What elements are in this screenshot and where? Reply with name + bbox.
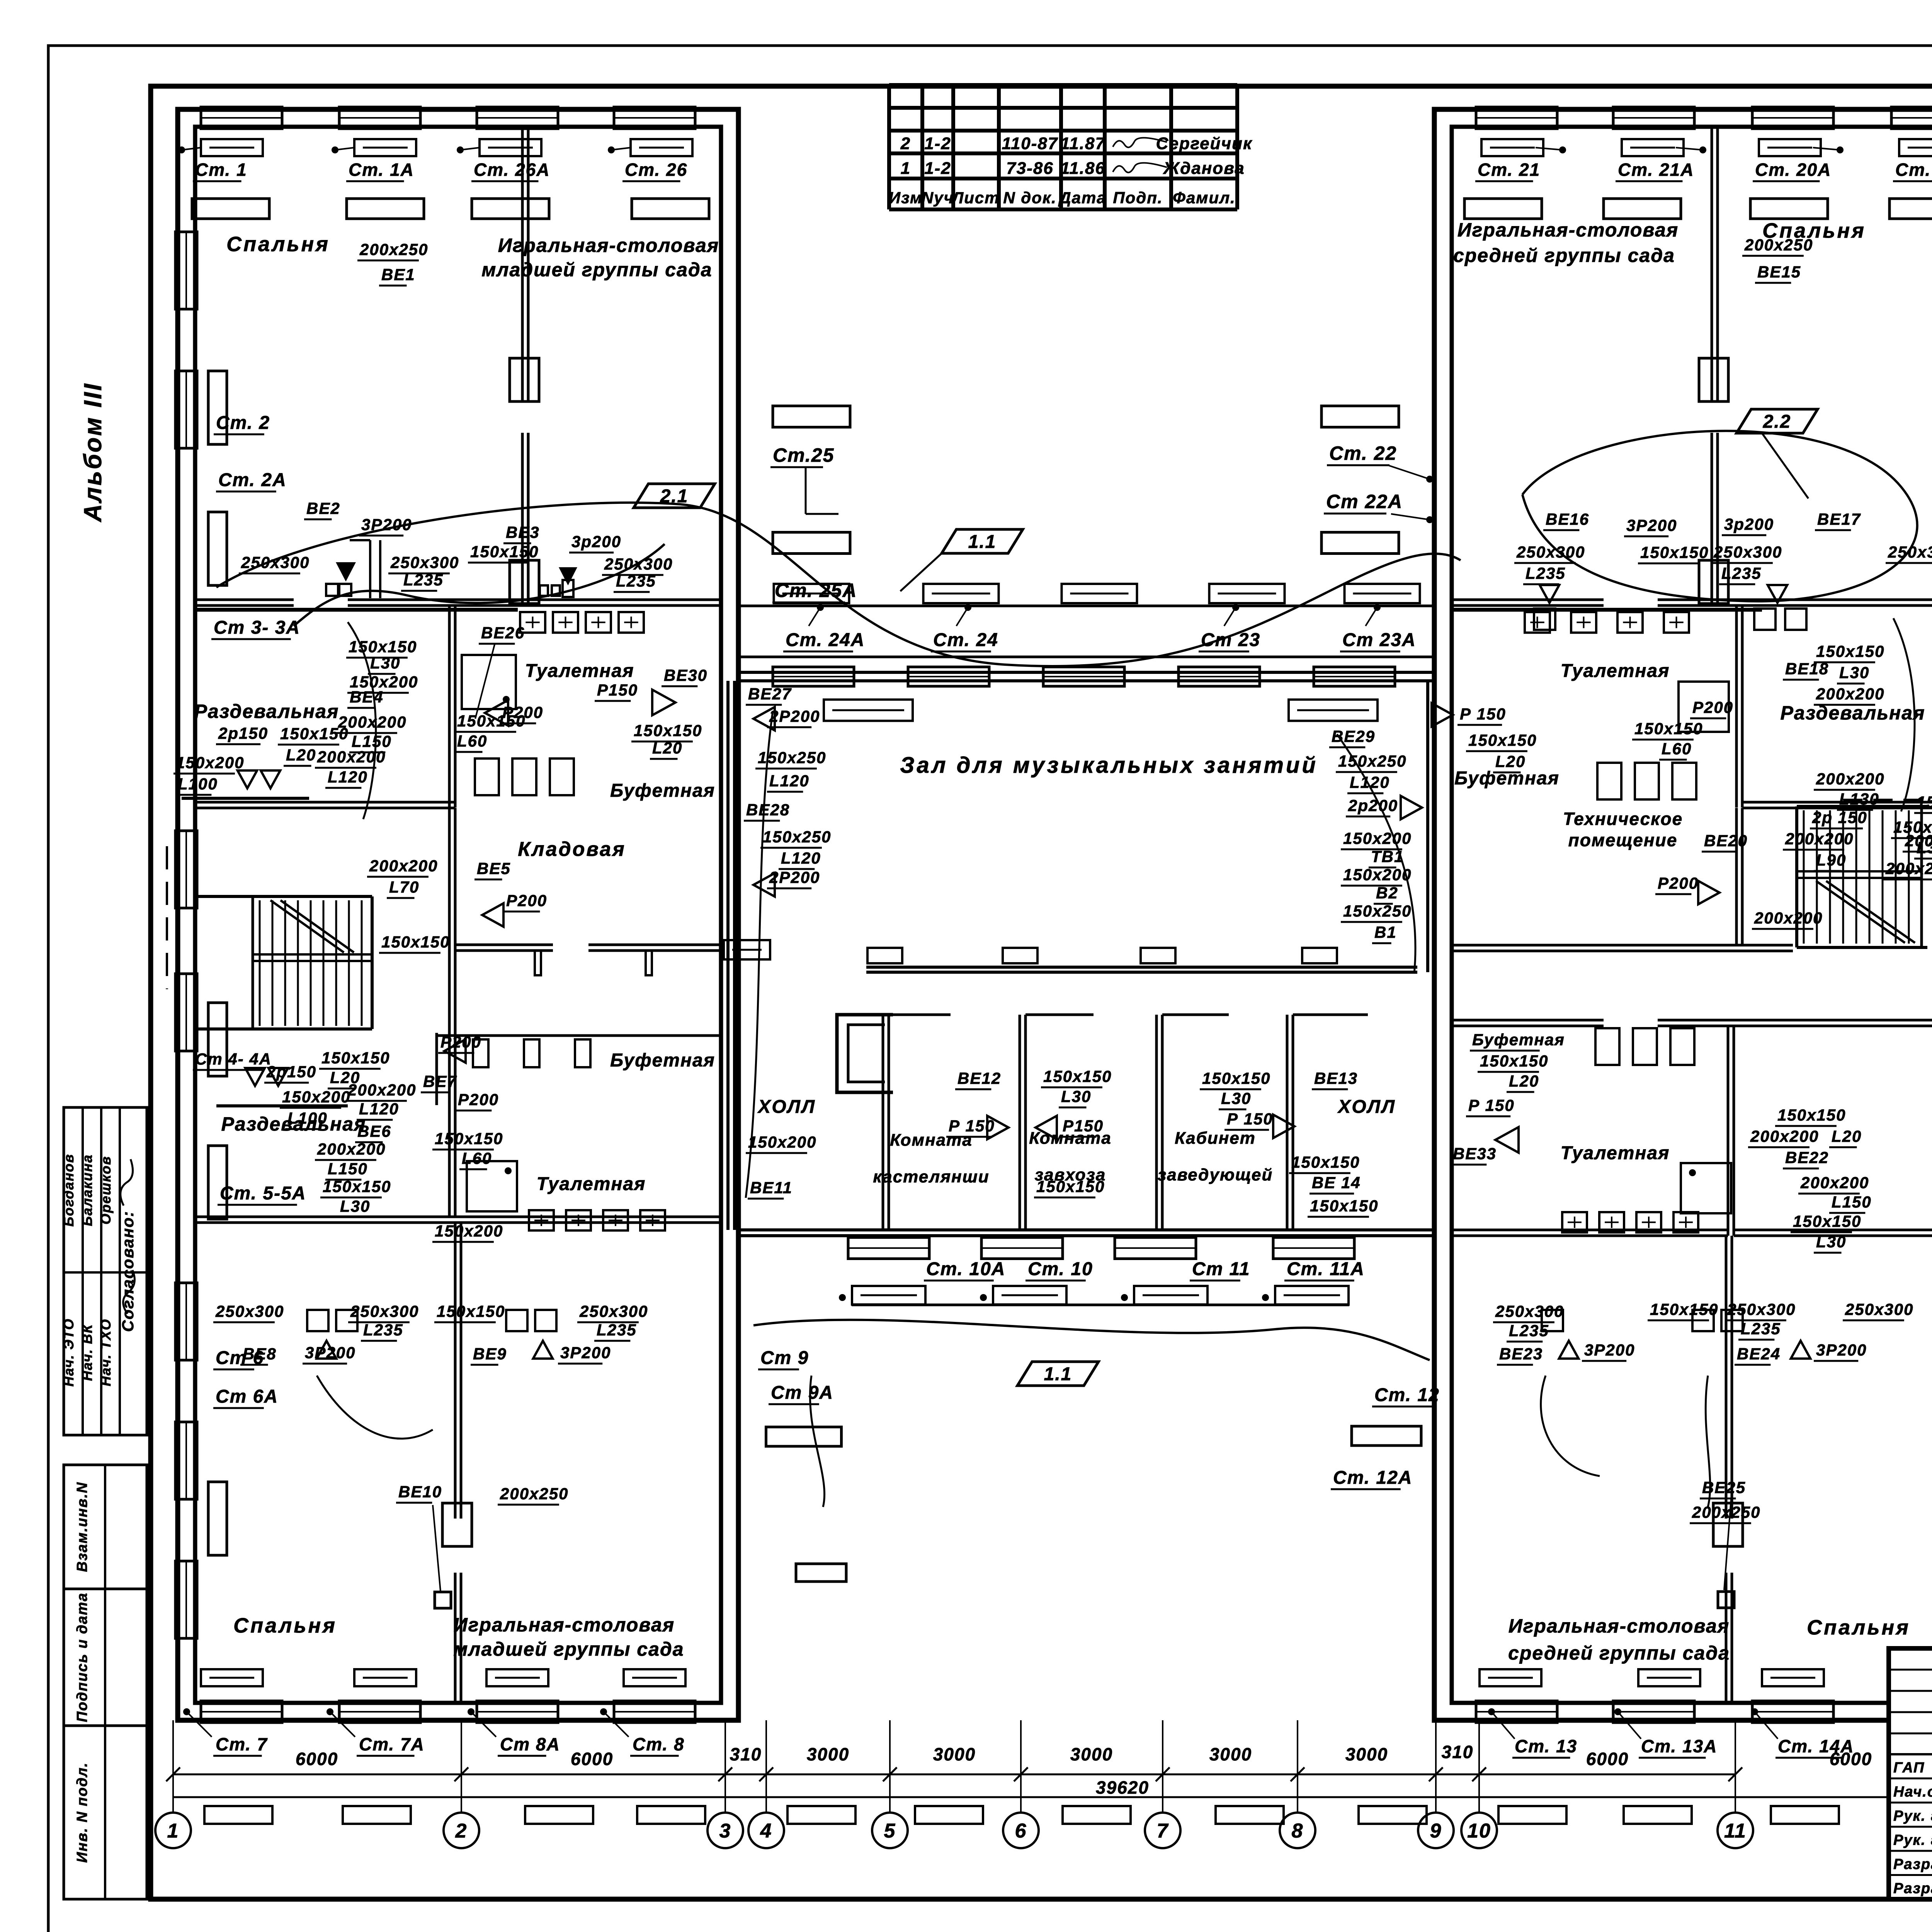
svg-text:Рук. гр.: Рук. гр. bbox=[1893, 1832, 1932, 1849]
svg-text:Ст. 13А: Ст. 13А bbox=[1641, 1736, 1717, 1756]
svg-text:Ст 22А: Ст 22А bbox=[1326, 491, 1403, 512]
svg-text:Взам.инв.N: Взам.инв.N bbox=[74, 1482, 90, 1572]
svg-text:Спальня: Спальня bbox=[226, 233, 330, 256]
svg-text:L120: L120 bbox=[769, 772, 810, 790]
svg-text:150х150: 150х150 bbox=[381, 933, 450, 951]
svg-text:73-86: 73-86 bbox=[1006, 159, 1054, 178]
svg-text:Туалетная: Туалетная bbox=[537, 1174, 646, 1194]
svg-text:Разраб.: Разраб. bbox=[1893, 1856, 1932, 1872]
svg-text:ВЕ24: ВЕ24 bbox=[1737, 1345, 1781, 1363]
svg-text:L60: L60 bbox=[457, 732, 487, 750]
svg-text:150х150: 150х150 bbox=[349, 638, 417, 656]
svg-text:ВЕ9: ВЕ9 bbox=[473, 1345, 507, 1363]
svg-text:150х150: 150х150 bbox=[1202, 1069, 1271, 1087]
svg-text:3000: 3000 bbox=[1070, 1744, 1113, 1764]
svg-text:7: 7 bbox=[1157, 1820, 1169, 1842]
svg-text:11: 11 bbox=[1724, 1820, 1747, 1842]
svg-text:Ст 9: Ст 9 bbox=[760, 1348, 809, 1368]
svg-text:ВЕ27: ВЕ27 bbox=[748, 685, 792, 703]
svg-text:L150: L150 bbox=[328, 1160, 368, 1178]
svg-text:L130: L130 bbox=[1839, 790, 1879, 808]
svg-text:310: 310 bbox=[730, 1744, 762, 1764]
svg-text:Ст. 24А: Ст. 24А bbox=[786, 630, 865, 650]
svg-text:L235: L235 bbox=[403, 571, 444, 589]
svg-text:N док.: N док. bbox=[1003, 189, 1057, 207]
svg-text:Буфетная: Буфетная bbox=[1472, 1031, 1565, 1049]
svg-text:Ст 8А: Ст 8А bbox=[500, 1734, 560, 1754]
svg-text:Буфетная: Буфетная bbox=[610, 1050, 715, 1071]
svg-text:средней группы сада: средней группы сада bbox=[1453, 245, 1675, 266]
svg-text:Зал для музыкальных занятий: Зал для музыкальных занятий bbox=[900, 753, 1318, 778]
svg-text:200х200: 200х200 bbox=[1905, 832, 1932, 850]
svg-text:Богданов: Богданов bbox=[61, 1153, 77, 1226]
svg-text:150х150: 150х150 bbox=[634, 721, 702, 740]
svg-text:ВЕ11: ВЕ11 bbox=[750, 1179, 793, 1197]
svg-text:L120: L120 bbox=[781, 849, 821, 867]
svg-text:1-2: 1-2 bbox=[924, 159, 951, 178]
svg-text:Нач.отд.: Нач.отд. bbox=[1893, 1784, 1932, 1800]
svg-text:Р 150: Р 150 bbox=[1460, 705, 1506, 723]
svg-text:3р200: 3р200 bbox=[1724, 515, 1774, 533]
svg-text:заведующей: заведующей bbox=[1158, 1165, 1273, 1184]
svg-text:11.86: 11.86 bbox=[1060, 159, 1105, 178]
svg-text:L20: L20 bbox=[286, 746, 316, 764]
svg-text:Туалетная: Туалетная bbox=[1561, 1143, 1670, 1163]
svg-text:250х300: 250х300 bbox=[1888, 543, 1932, 561]
svg-text:L150: L150 bbox=[1832, 1193, 1872, 1211]
svg-text:Ст 23: Ст 23 bbox=[1201, 630, 1260, 650]
svg-text:Фамил.: Фамил. bbox=[1173, 189, 1236, 207]
svg-text:39620: 39620 bbox=[1096, 1777, 1149, 1798]
svg-text:L90: L90 bbox=[1816, 851, 1846, 869]
svg-text:Раздевальная: Раздевальная bbox=[221, 1113, 366, 1135]
svg-text:150х200: 150х200 bbox=[748, 1133, 817, 1151]
svg-text:Ст 3- 3А: Ст 3- 3А bbox=[214, 617, 300, 638]
svg-text:Туалетная: Туалетная bbox=[1561, 661, 1670, 681]
svg-text:150х150: 150х150 bbox=[1793, 1212, 1862, 1230]
svg-text:Нач. ВК: Нач. ВК bbox=[79, 1323, 95, 1381]
svg-text:L100: L100 bbox=[178, 775, 218, 793]
svg-text:Согласовано:: Согласовано: bbox=[119, 1211, 137, 1332]
svg-text:3Р200: 3Р200 bbox=[1584, 1341, 1635, 1359]
svg-text:Р 150: Р 150 bbox=[1227, 1110, 1273, 1128]
svg-text:2: 2 bbox=[900, 134, 911, 153]
svg-text:Ст. 26: Ст. 26 bbox=[625, 160, 687, 180]
svg-text:Жданова: Жданова bbox=[1163, 159, 1245, 178]
svg-text:Раздевальная: Раздевальная bbox=[1781, 702, 1925, 724]
svg-text:Подп.: Подп. bbox=[1113, 189, 1163, 207]
svg-text:250х300: 250х300 bbox=[1516, 543, 1585, 561]
svg-text:L70: L70 bbox=[389, 878, 419, 896]
svg-text:250х300: 250х300 bbox=[390, 553, 459, 571]
svg-text:110-87: 110-87 bbox=[1002, 134, 1058, 153]
svg-text:L30: L30 bbox=[1061, 1087, 1091, 1105]
svg-text:200х250: 200х250 bbox=[1744, 236, 1813, 254]
svg-text:Р150: Р150 bbox=[1063, 1117, 1104, 1135]
svg-text:150х150: 150х150 bbox=[435, 1129, 503, 1148]
svg-text:Ст.25: Ст.25 bbox=[773, 444, 834, 466]
svg-text:ХОЛЛ: ХОЛЛ bbox=[1337, 1097, 1396, 1117]
svg-text:Изм: Изм bbox=[889, 189, 923, 207]
svg-text:6000: 6000 bbox=[571, 1749, 613, 1769]
svg-text:кастелянши: кастелянши bbox=[873, 1167, 989, 1186]
svg-text:Ст. 10: Ст. 10 bbox=[1028, 1259, 1093, 1279]
svg-text:ВЕ33: ВЕ33 bbox=[1453, 1145, 1497, 1163]
svg-text:3р200: 3р200 bbox=[571, 532, 621, 551]
svg-text:L20: L20 bbox=[1509, 1072, 1539, 1090]
svg-text:3: 3 bbox=[719, 1820, 731, 1842]
svg-text:L120: L120 bbox=[1350, 773, 1390, 791]
svg-text:150х200: 150х200 bbox=[1343, 829, 1412, 847]
svg-text:Ст. 11А: Ст. 11А bbox=[1287, 1259, 1365, 1279]
svg-text:200х200: 200х200 bbox=[369, 857, 438, 875]
svg-text:Ст. 22: Ст. 22 bbox=[1329, 442, 1397, 464]
svg-text:Спальня: Спальня bbox=[1807, 1616, 1910, 1639]
svg-text:Ст. 12А: Ст. 12А bbox=[1333, 1468, 1412, 1488]
svg-text:Кабинет: Кабинет bbox=[1175, 1129, 1256, 1148]
svg-text:150х150: 150х150 bbox=[437, 1302, 505, 1320]
svg-text:ВЕ30: ВЕ30 bbox=[664, 666, 707, 684]
svg-text:310: 310 bbox=[1442, 1742, 1474, 1762]
svg-text:ВЕ 14: ВЕ 14 bbox=[1312, 1173, 1361, 1192]
svg-text:2Р200: 2Р200 bbox=[769, 707, 820, 725]
svg-text:Р 150: Р 150 bbox=[1468, 1096, 1515, 1114]
svg-text:Ст. 7: Ст. 7 bbox=[216, 1734, 268, 1754]
svg-text:9: 9 bbox=[1430, 1820, 1442, 1842]
svg-text:Нач. ЭТО: Нач. ЭТО bbox=[61, 1318, 77, 1386]
svg-text:8: 8 bbox=[1292, 1820, 1304, 1842]
svg-text:ВЕ5: ВЕ5 bbox=[477, 859, 511, 878]
svg-text:200х200: 200х200 bbox=[1816, 685, 1885, 703]
svg-text:2р200: 2р200 bbox=[1348, 796, 1398, 815]
svg-text:250х300: 250х300 bbox=[1495, 1302, 1564, 1320]
svg-text:L20: L20 bbox=[1832, 1127, 1862, 1145]
svg-text:Ст 6А: Ст 6А bbox=[216, 1386, 278, 1407]
svg-text:150х150: 150х150 bbox=[1640, 543, 1709, 561]
svg-text:Ст. 12: Ст. 12 bbox=[1374, 1385, 1440, 1405]
svg-text:5: 5 bbox=[884, 1820, 896, 1842]
svg-text:ВЕ28: ВЕ28 bbox=[746, 801, 790, 819]
svg-text:150х250: 150х250 bbox=[1338, 752, 1407, 770]
svg-text:L20: L20 bbox=[652, 739, 682, 757]
svg-text:Альбом III: Альбом III bbox=[79, 382, 107, 522]
svg-text:В1: В1 bbox=[1374, 923, 1397, 941]
svg-text:Игральная-столовая: Игральная-столовая bbox=[1509, 1615, 1730, 1637]
svg-text:1: 1 bbox=[167, 1820, 179, 1842]
svg-text:3Р200: 3Р200 bbox=[1816, 1341, 1867, 1359]
svg-text:Р200: Р200 bbox=[1692, 698, 1733, 716]
svg-text:помещение: помещение bbox=[1568, 830, 1678, 850]
svg-text:ВЕ25: ВЕ25 bbox=[1702, 1478, 1746, 1497]
svg-text:150х200: 150х200 bbox=[282, 1088, 351, 1106]
svg-text:200х200: 200х200 bbox=[1750, 1127, 1819, 1145]
svg-text:ВЕ20: ВЕ20 bbox=[1704, 832, 1748, 850]
svg-text:2р150: 2р150 bbox=[218, 724, 268, 742]
svg-text:L30: L30 bbox=[1221, 1089, 1251, 1107]
svg-text:3Р200: 3Р200 bbox=[361, 515, 412, 534]
svg-text:2р 150: 2р 150 bbox=[1812, 808, 1867, 827]
svg-text:ТВ1: ТВ1 bbox=[1371, 847, 1404, 866]
svg-text:L235: L235 bbox=[1741, 1320, 1781, 1338]
svg-text:L235: L235 bbox=[1721, 564, 1762, 582]
svg-text:L60: L60 bbox=[1662, 740, 1692, 758]
svg-text:L235: L235 bbox=[1526, 564, 1566, 582]
svg-text:L235: L235 bbox=[616, 572, 656, 590]
svg-text:250х300: 250х300 bbox=[215, 1302, 284, 1320]
svg-text:ВЕ13: ВЕ13 bbox=[1314, 1069, 1358, 1087]
svg-text:6000: 6000 bbox=[296, 1749, 338, 1769]
svg-text:150х250: 150х250 bbox=[758, 748, 827, 767]
svg-text:Ст. 24: Ст. 24 bbox=[933, 630, 998, 650]
svg-text:ВЕ22: ВЕ22 bbox=[1785, 1148, 1829, 1167]
svg-text:1-2: 1-2 bbox=[924, 134, 951, 153]
svg-text:150х150: 150х150 bbox=[1291, 1153, 1360, 1171]
svg-text:150х150: 150х150 bbox=[1816, 642, 1885, 660]
svg-text:Спальня: Спальня bbox=[233, 1614, 337, 1637]
svg-text:200х250: 200х250 bbox=[500, 1485, 569, 1503]
svg-text:ХОЛЛ: ХОЛЛ bbox=[757, 1097, 816, 1117]
svg-text:250х300: 250х300 bbox=[579, 1302, 648, 1320]
svg-text:150х150: 150х150 bbox=[1917, 793, 1932, 811]
svg-text:В2: В2 bbox=[1376, 884, 1398, 902]
svg-text:Ст 9А: Ст 9А bbox=[771, 1383, 833, 1403]
svg-text:1.1: 1.1 bbox=[1044, 1364, 1072, 1384]
svg-text:Ст. 1: Ст. 1 bbox=[195, 160, 247, 180]
svg-text:250х300: 250х300 bbox=[350, 1302, 419, 1320]
svg-text:Игральная-столовая: Игральная-столовая bbox=[454, 1614, 675, 1636]
svg-text:ВЕ15: ВЕ15 bbox=[1757, 263, 1801, 281]
svg-text:L30: L30 bbox=[340, 1197, 370, 1215]
svg-text:ВЕ2: ВЕ2 bbox=[306, 499, 340, 517]
svg-text:250х300: 250х300 bbox=[1845, 1300, 1914, 1318]
svg-text:Кладовая: Кладовая bbox=[518, 838, 626, 861]
svg-text:Ст 4- 4А: Ст 4- 4А bbox=[195, 1050, 272, 1068]
svg-text:200х200: 200х200 bbox=[1800, 1173, 1869, 1192]
svg-text:ВЕ10: ВЕ10 bbox=[398, 1483, 442, 1501]
svg-text:2Р200: 2Р200 bbox=[769, 868, 820, 886]
svg-text:L235: L235 bbox=[597, 1321, 637, 1339]
svg-text:Р200: Р200 bbox=[506, 891, 547, 910]
svg-text:средней группы сада: средней группы сада bbox=[1508, 1642, 1730, 1664]
svg-text:L20: L20 bbox=[1495, 752, 1526, 770]
svg-text:Туалетная: Туалетная bbox=[525, 661, 634, 681]
svg-text:Ст 23А: Ст 23А bbox=[1342, 630, 1416, 650]
svg-text:200х200: 200х200 bbox=[317, 748, 386, 766]
svg-text:150х200: 150х200 bbox=[1343, 866, 1412, 884]
svg-text:6000: 6000 bbox=[1586, 1749, 1629, 1769]
svg-text:Буфетная: Буфетная bbox=[1454, 768, 1560, 789]
svg-text:11.87: 11.87 bbox=[1060, 134, 1105, 153]
svg-text:ВЕ23: ВЕ23 bbox=[1499, 1345, 1543, 1363]
svg-text:2.2: 2.2 bbox=[1763, 412, 1791, 432]
svg-text:150х150: 150х150 bbox=[1468, 731, 1537, 749]
svg-text:L120: L120 bbox=[328, 768, 368, 786]
svg-text:150х150: 150х150 bbox=[1777, 1106, 1846, 1124]
svg-text:Игральная-столовая: Игральная-столовая bbox=[1458, 219, 1679, 241]
svg-text:Nуч: Nуч bbox=[922, 189, 954, 207]
svg-text:150х150: 150х150 bbox=[1036, 1177, 1105, 1196]
svg-text:150х200: 150х200 bbox=[435, 1222, 503, 1240]
svg-text:Сергейчик: Сергейчик bbox=[1156, 134, 1253, 153]
svg-text:1: 1 bbox=[901, 159, 911, 178]
svg-text:ВЕ16: ВЕ16 bbox=[1546, 510, 1589, 528]
svg-text:2: 2 bbox=[455, 1820, 468, 1842]
svg-text:150х150: 150х150 bbox=[470, 543, 539, 561]
svg-text:Орешков: Орешков bbox=[98, 1156, 114, 1225]
svg-text:Буфетная: Буфетная bbox=[610, 781, 715, 801]
svg-text:200х250: 200х250 bbox=[359, 240, 429, 259]
svg-text:Р150: Р150 bbox=[597, 681, 638, 699]
svg-text:ВЕ29: ВЕ29 bbox=[1332, 727, 1375, 745]
svg-text:3000: 3000 bbox=[933, 1744, 976, 1764]
svg-text:L235: L235 bbox=[363, 1321, 403, 1339]
svg-text:L30: L30 bbox=[370, 654, 400, 672]
svg-text:Ст 6: Ст 6 bbox=[216, 1348, 264, 1368]
svg-text:150х150: 150х150 bbox=[1634, 719, 1703, 738]
svg-text:4: 4 bbox=[760, 1820, 772, 1842]
svg-text:Ст. 25А: Ст. 25А bbox=[775, 580, 857, 601]
svg-text:150х150: 150х150 bbox=[1480, 1052, 1549, 1070]
svg-text:Ст. 10А: Ст. 10А bbox=[926, 1259, 1005, 1279]
svg-text:150х200: 150х200 bbox=[176, 753, 245, 772]
svg-text:Ст. 2: Ст. 2 bbox=[216, 413, 270, 433]
svg-text:150х250: 150х250 bbox=[1343, 902, 1412, 920]
svg-text:3000: 3000 bbox=[1345, 1744, 1388, 1764]
svg-text:ВЕ12: ВЕ12 bbox=[957, 1069, 1001, 1087]
svg-text:L60: L60 bbox=[462, 1149, 492, 1167]
svg-text:150х150: 150х150 bbox=[1310, 1197, 1379, 1215]
svg-text:ВЕ1: ВЕ1 bbox=[381, 265, 415, 284]
svg-text:150х250: 150х250 bbox=[763, 828, 832, 846]
svg-text:3Р200: 3Р200 bbox=[560, 1344, 611, 1362]
svg-text:ВЕ26: ВЕ26 bbox=[481, 624, 525, 642]
svg-text:Инв. N подл.: Инв. N подл. bbox=[74, 1762, 90, 1862]
svg-text:Ст. 14А: Ст. 14А bbox=[1778, 1736, 1854, 1756]
svg-text:200х200: 200х200 bbox=[338, 713, 407, 731]
svg-text:200х200: 200х200 bbox=[1785, 830, 1854, 848]
svg-text:Р200: Р200 bbox=[458, 1090, 499, 1109]
svg-text:ВЕ4: ВЕ4 bbox=[350, 688, 384, 706]
svg-text:Ст. 13: Ст. 13 bbox=[1515, 1736, 1577, 1756]
svg-text:ГАП: ГАП bbox=[1893, 1760, 1925, 1776]
svg-text:1.1: 1.1 bbox=[968, 532, 997, 552]
svg-text:Лист: Лист bbox=[951, 189, 1000, 207]
svg-text:Ст. 21: Ст. 21 bbox=[1478, 160, 1540, 180]
svg-text:250х300: 250х300 bbox=[241, 553, 310, 571]
svg-text:Балакина: Балакина bbox=[79, 1154, 95, 1226]
svg-text:6: 6 bbox=[1015, 1820, 1027, 1842]
svg-text:200х200: 200х200 bbox=[317, 1140, 386, 1158]
svg-text:200х200: 200х200 bbox=[1885, 859, 1932, 878]
svg-text:ВЕ17: ВЕ17 bbox=[1817, 510, 1861, 528]
svg-text:3000: 3000 bbox=[807, 1744, 849, 1764]
svg-text:Подпись и дата: Подпись и дата bbox=[74, 1592, 90, 1722]
svg-text:3000: 3000 bbox=[1209, 1744, 1252, 1764]
svg-text:Ст. 8: Ст. 8 bbox=[633, 1734, 685, 1754]
svg-text:Ст 11: Ст 11 bbox=[1192, 1259, 1250, 1279]
svg-text:L30: L30 bbox=[1816, 1233, 1846, 1251]
svg-text:младшей группы сада: младшей группы сада bbox=[481, 259, 712, 281]
svg-text:Ст. 7А: Ст. 7А bbox=[359, 1734, 425, 1754]
svg-text:Техническое: Техническое bbox=[1563, 809, 1683, 829]
svg-text:Ст. 21А: Ст. 21А bbox=[1618, 160, 1694, 180]
svg-text:200х250: 200х250 bbox=[1692, 1503, 1761, 1521]
svg-text:150х150: 150х150 bbox=[323, 1177, 391, 1196]
svg-text:Ст. 20: Ст. 20 bbox=[1895, 160, 1932, 180]
svg-text:Ст. 2А: Ст. 2А bbox=[218, 470, 287, 490]
svg-text:10: 10 bbox=[1467, 1820, 1491, 1842]
svg-text:200х200: 200х200 bbox=[347, 1081, 417, 1099]
svg-text:L30: L30 bbox=[1839, 663, 1869, 682]
svg-text:200х200: 200х200 bbox=[1754, 909, 1823, 927]
svg-text:Р200: Р200 bbox=[1658, 874, 1699, 892]
svg-text:Нач. ТХО: Нач. ТХО bbox=[98, 1318, 114, 1386]
svg-text:150х150: 150х150 bbox=[1043, 1067, 1112, 1085]
svg-text:младшей группы сада: младшей группы сада bbox=[453, 1638, 684, 1660]
svg-text:150х150: 150х150 bbox=[321, 1049, 390, 1067]
svg-text:Ст. 5-5А: Ст. 5-5А bbox=[220, 1183, 306, 1204]
svg-text:Ст. 20А: Ст. 20А bbox=[1755, 160, 1831, 180]
svg-text:250х300: 250х300 bbox=[604, 555, 673, 573]
svg-text:Разраб.: Разраб. bbox=[1893, 1881, 1932, 1897]
svg-text:200х200: 200х200 bbox=[1816, 770, 1885, 788]
svg-text:ВЕ7: ВЕ7 bbox=[423, 1072, 457, 1090]
svg-text:Игральная-столовая: Игральная-столовая bbox=[498, 235, 719, 256]
svg-text:Раздевальная: Раздевальная bbox=[194, 701, 339, 722]
svg-text:3Р200: 3Р200 bbox=[1626, 516, 1677, 534]
svg-text:Рук. гр.: Рук. гр. bbox=[1893, 1808, 1932, 1824]
svg-text:250х300: 250х300 bbox=[1713, 543, 1782, 561]
svg-text:Ст. 1А: Ст. 1А bbox=[349, 160, 414, 180]
svg-text:Ст. 26А: Ст. 26А bbox=[474, 160, 550, 180]
svg-text:Дата: Дата bbox=[1058, 189, 1106, 207]
svg-text:ВЕ3: ВЕ3 bbox=[506, 523, 540, 541]
